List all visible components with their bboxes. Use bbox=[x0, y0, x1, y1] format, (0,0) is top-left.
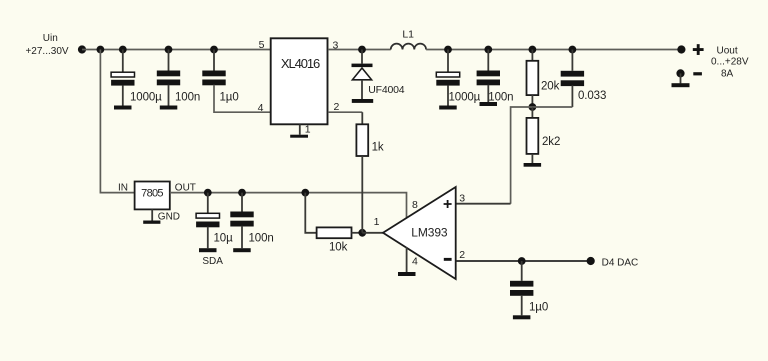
capacitor 1000µ input electrolytic bbox=[111, 50, 162, 106]
inductor L1 bbox=[391, 29, 426, 50]
wire feedback divider to comparator pin 3 bbox=[511, 107, 533, 204]
node junction divider bbox=[529, 103, 537, 111]
svg-text:100n: 100n bbox=[249, 232, 274, 244]
svg-text:0.033: 0.033 bbox=[578, 90, 606, 102]
svg-text:Uin: Uin bbox=[43, 33, 58, 44]
svg-text:L1: L1 bbox=[402, 29, 414, 41]
svg-text:8A: 8A bbox=[721, 68, 734, 79]
svg-text:4: 4 bbox=[258, 102, 264, 114]
svg-text:3: 3 bbox=[459, 192, 465, 204]
resistor 20k bbox=[527, 50, 560, 108]
wire 0.033 bottom to divider node bbox=[571, 85, 573, 107]
node junction 10µ bbox=[204, 189, 212, 197]
ground bar under 1000µ bbox=[114, 106, 132, 110]
ground pin 1 of XL4016 bbox=[290, 125, 308, 138]
ground bar under logic 100n bbox=[233, 248, 251, 252]
node junction output 100n bbox=[484, 46, 492, 54]
svg-text:Uout: Uout bbox=[717, 46, 738, 57]
wire L1 to output terminal bbox=[426, 49, 681, 51]
svg-text:100n: 100n bbox=[488, 91, 513, 103]
svg-text:LM393: LM393 bbox=[411, 225, 448, 239]
wire XL4016 pin 2 to 1k bbox=[328, 111, 362, 113]
node junction C3 bbox=[210, 46, 218, 54]
wire branch down to 10k bbox=[305, 193, 316, 233]
svg-text:IN: IN bbox=[118, 183, 128, 194]
op-amp U1 XL4016 bbox=[258, 38, 340, 135]
ground bar under output 100n bbox=[480, 102, 498, 106]
resistor 2k2 bbox=[527, 107, 561, 163]
resistor 10k bbox=[317, 227, 363, 253]
ground bar under output 1000µ bbox=[439, 106, 457, 110]
wire node to comparator output pin 1 bbox=[362, 232, 383, 234]
node junction 100n logic bbox=[238, 189, 246, 197]
svg-text:1: 1 bbox=[374, 216, 380, 228]
node Uout plus terminal bbox=[677, 44, 749, 79]
capacitor 1000µ output electrolytic bbox=[436, 50, 480, 106]
ground bar under 10µ bbox=[199, 248, 217, 252]
svg-text:1000µ: 1000µ bbox=[130, 91, 162, 103]
node Uout minus terminal bbox=[676, 69, 701, 83]
svg-text:7805: 7805 bbox=[141, 188, 163, 200]
wire XL4016 pin 3 to L1 bbox=[328, 49, 391, 51]
svg-text:XL4016: XL4016 bbox=[281, 56, 320, 71]
ground pin 4 of LM393 bbox=[398, 247, 416, 276]
svg-text:GND: GND bbox=[158, 211, 180, 222]
ground bar under 2k2 bbox=[524, 163, 542, 167]
svg-text:1000µ: 1000µ bbox=[449, 91, 481, 103]
capacitor 1µ0 filter bbox=[510, 261, 548, 315]
svg-text:10k: 10k bbox=[329, 241, 348, 253]
capacitor 100n input bbox=[157, 50, 200, 106]
node junction 20k top bbox=[529, 46, 537, 54]
capacitor 1µ0 bbox=[202, 50, 238, 104]
op-amp U3 LM393 bbox=[374, 187, 466, 279]
wire 1µ0 bottom to XL4016 pin 4 bbox=[214, 85, 271, 112]
ground bar under 100n bbox=[160, 106, 178, 110]
svg-text:4: 4 bbox=[412, 256, 418, 268]
svg-text:+27...30V: +27...30V bbox=[25, 46, 68, 57]
svg-text:8: 8 bbox=[412, 199, 418, 211]
node junction 10k branch bbox=[301, 189, 309, 197]
svg-text:1k: 1k bbox=[372, 142, 384, 154]
svg-text:100n: 100n bbox=[175, 91, 200, 103]
regulator U2 7805 bbox=[118, 182, 196, 210]
capacitor 100n output bbox=[477, 50, 514, 104]
capacitor 0.033 bbox=[561, 50, 607, 103]
node junction diode bbox=[358, 46, 366, 54]
svg-text:1µ0: 1µ0 bbox=[529, 302, 548, 314]
capacitor 10µ electrolytic bbox=[196, 193, 233, 249]
svg-text:2k2: 2k2 bbox=[542, 136, 560, 148]
resistor 1k bbox=[356, 124, 383, 233]
node junction C2 bbox=[165, 46, 173, 54]
capacitor 100n logic bbox=[230, 193, 273, 249]
svg-text:D4 DAC: D4 DAC bbox=[602, 257, 639, 268]
svg-text:1µ0: 1µ0 bbox=[220, 91, 239, 103]
node junction comparator input bbox=[358, 229, 366, 237]
node junction 1µ0 filter bbox=[518, 257, 526, 265]
wire 7805 OUT to comparator pin 8 bbox=[170, 193, 407, 218]
ground bar under filter 1µ0 bbox=[513, 315, 531, 319]
node junction output 1000µ bbox=[444, 46, 452, 54]
node Uin input terminal bbox=[25, 33, 86, 57]
svg-text:UF4004: UF4004 bbox=[368, 84, 405, 96]
node junction 0.033 top bbox=[569, 46, 577, 54]
ground bar under UF4004 bbox=[352, 99, 373, 103]
wire comparator pin 2 to D4 DAC bbox=[456, 260, 591, 262]
node D4 DAC terminal bbox=[587, 257, 639, 268]
ground GND pin of 7805 bbox=[143, 209, 180, 223]
svg-text:10µ: 10µ bbox=[214, 232, 234, 244]
node junction C1 bbox=[119, 46, 127, 54]
svg-text:20k: 20k bbox=[541, 81, 560, 93]
svg-text:2: 2 bbox=[459, 249, 465, 261]
svg-text:5: 5 bbox=[259, 39, 265, 51]
svg-text:0...+28V: 0...+28V bbox=[711, 56, 749, 67]
ground bar minus terminal bbox=[672, 83, 690, 87]
svg-text:1: 1 bbox=[305, 124, 311, 136]
wire input rail to XL4016 pin 5 bbox=[82, 49, 271, 51]
svg-text:SDA: SDA bbox=[202, 256, 223, 267]
wire input down to 7805 IN bbox=[100, 50, 134, 193]
node junction to 7805 branch bbox=[97, 46, 105, 54]
diode D1 UF4004 bbox=[352, 50, 405, 100]
